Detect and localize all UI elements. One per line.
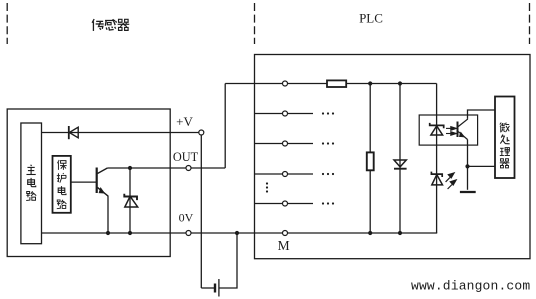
battery B1 short plate xyxy=(214,284,216,293)
wire OUT to riser xyxy=(191,167,225,169)
protection-circuit block 保护电路 xyxy=(53,156,71,213)
sensor enclosure box xyxy=(7,109,170,257)
terminal input 2 xyxy=(283,111,288,116)
label 保护电路 (protection circuit) xyxy=(57,160,66,170)
wire OUT line xyxy=(107,167,186,169)
terminal OUT xyxy=(186,166,191,171)
ellipsis after line 5 xyxy=(322,202,334,204)
wire zener branch xyxy=(129,168,131,233)
node: emitter-0V junction xyxy=(106,231,110,235)
phototransistor (optocoupler output) xyxy=(458,119,468,140)
terminal M xyxy=(283,231,288,236)
diode D2 (input clamp, pointing down) xyxy=(394,160,407,169)
optocoupler light arrows xyxy=(446,127,456,136)
microprocessor box 微处理器 xyxy=(495,97,515,179)
resistor R2 (vertical) xyxy=(367,152,374,170)
dashed boundary right xyxy=(529,3,531,44)
wire PLC input line 5 xyxy=(255,203,314,205)
ellipsis after line 2 xyxy=(322,112,334,114)
terminal input 4 xyxy=(283,172,288,177)
node: resistor top junction xyxy=(368,81,372,85)
diode D1 (sensor reverse protection) xyxy=(69,126,78,139)
node: zener-0V junction xyxy=(128,231,132,235)
terminal input 1 xyxy=(283,81,288,86)
wire resistor branch xyxy=(369,84,371,153)
resistor R1 (horizontal, line 1) xyxy=(327,80,346,87)
transistor Q1 (NPN output) xyxy=(97,168,108,197)
wire OUT riser xyxy=(224,84,226,169)
node: OUT-zener junction xyxy=(128,166,132,170)
wire battery bottom left xyxy=(201,287,214,289)
wire emitter drop xyxy=(98,188,109,234)
optocoupler box U1 xyxy=(419,115,477,145)
optocoupler LED (zener-style) xyxy=(430,123,444,135)
svg-text:PLC: PLC xyxy=(359,11,383,26)
ground (emitter) xyxy=(460,191,476,193)
svg-text:+V: +V xyxy=(176,114,193,129)
LED indicator D3 xyxy=(431,172,442,185)
node: emitter-ground junction xyxy=(465,164,469,168)
wire PLC input line 3 xyxy=(255,143,314,145)
terminal input 3 xyxy=(283,141,288,146)
label 传感器 (sensor) xyxy=(92,19,104,31)
node: battery-0V junction xyxy=(235,231,239,235)
svg-text:0V: 0V xyxy=(179,210,194,224)
label 主电路 (main circuit) xyxy=(26,165,35,175)
dashed boundary middle xyxy=(254,3,256,44)
LED light emission arrows xyxy=(446,173,457,189)
wire optocoupler LED branch xyxy=(436,84,438,234)
node: diode bottom junction xyxy=(398,231,402,235)
wire base lead xyxy=(71,181,97,183)
node: diode top junction xyxy=(398,81,402,85)
dashed boundary left xyxy=(6,3,8,44)
svg-text:M: M xyxy=(278,238,290,253)
terminal 0V xyxy=(186,231,191,236)
wire PLC input line 1 xyxy=(225,83,327,85)
PLC enclosure box xyxy=(255,55,531,259)
vertical ellipsis between lines 4-5 xyxy=(266,182,268,192)
battery B1 long plate xyxy=(218,279,220,297)
zener diode Z1 (sensor clamp) xyxy=(124,194,137,207)
wire phototransistor collector to MCU xyxy=(468,110,495,119)
ellipsis after line 4 xyxy=(322,173,334,175)
node: resistor bottom junction xyxy=(368,231,372,235)
terminal +V xyxy=(199,130,204,135)
wire diode branch xyxy=(399,84,401,234)
label 微处理器 (microprocessor) xyxy=(500,123,510,133)
wire PLC input line 4 xyxy=(255,173,314,175)
terminal input 5 xyxy=(283,201,288,206)
svg-text:OUT: OUT xyxy=(173,150,199,164)
main-circuit block 主电路 xyxy=(21,123,42,244)
wire +V drop to battery xyxy=(200,135,202,288)
wire emitter node to MCU xyxy=(468,165,495,167)
wire +V line xyxy=(42,132,199,134)
wire 0V / M rail xyxy=(42,232,438,234)
wire battery bottom right xyxy=(219,233,237,288)
wire PLC input line 2 xyxy=(255,113,314,115)
svg-text:www.diangon.com: www.diangon.com xyxy=(411,279,530,294)
wire phototransistor emitter drop xyxy=(467,140,469,190)
ellipsis after line 3 xyxy=(322,142,334,144)
